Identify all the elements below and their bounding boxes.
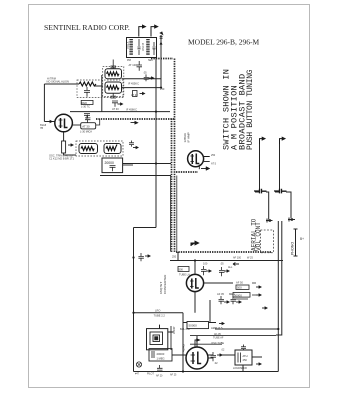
svg-text:L-30 TC: L-30 TC bbox=[81, 106, 90, 109]
svg-text:MEG: MEG bbox=[229, 292, 235, 296]
svg-text:W 25: W 25 bbox=[247, 257, 253, 260]
svg-text:IF 456KC: IF 456KC bbox=[126, 108, 137, 112]
svg-text:20000: 20000 bbox=[105, 161, 115, 165]
svg-text:B+: B+ bbox=[300, 237, 304, 241]
svg-text:AF 20: AF 20 bbox=[156, 375, 163, 378]
svg-text:AMPLIT 5: AMPLIT 5 bbox=[211, 326, 223, 330]
svg-text:RED: RED bbox=[82, 101, 88, 105]
svg-text:SENTINEL RADIO CORP.: SENTINEL RADIO CORP. bbox=[44, 23, 130, 32]
svg-text:.02: .02 bbox=[214, 361, 218, 365]
svg-text:HI TRIM: HI TRIM bbox=[47, 78, 56, 81]
svg-text:7B: 7B bbox=[40, 127, 43, 130]
svg-text:250: 250 bbox=[160, 87, 165, 91]
svg-text:450: 450 bbox=[243, 358, 248, 362]
svg-text:AT 30: AT 30 bbox=[131, 93, 138, 97]
svg-text:IF AMP: IF AMP bbox=[187, 132, 191, 142]
svg-text:AF 100: AF 100 bbox=[233, 257, 242, 260]
svg-text:PILOT: PILOT bbox=[147, 373, 154, 376]
svg-text:C1 K12 M2 B BR 1T1: C1 K12 M2 B BR 1T1 bbox=[49, 157, 74, 161]
svg-text:SEC: SEC bbox=[148, 59, 153, 62]
svg-text:AT 5: AT 5 bbox=[211, 163, 217, 166]
svg-text:PRI: PRI bbox=[127, 59, 131, 62]
svg-text:AF 25: AF 25 bbox=[170, 374, 177, 377]
svg-text:AF 05: AF 05 bbox=[217, 292, 224, 296]
svg-text:.05: .05 bbox=[143, 71, 147, 75]
svg-text:100: 100 bbox=[203, 262, 208, 266]
svg-text:.05: .05 bbox=[220, 262, 224, 266]
svg-text:L-30 MICA: L-30 MICA bbox=[80, 131, 92, 134]
svg-text:AF 50: AF 50 bbox=[236, 281, 243, 285]
svg-text:IF 455KC: IF 455KC bbox=[128, 82, 139, 86]
svg-text:CONVERTER: CONVERTER bbox=[163, 274, 167, 294]
svg-text:250: 250 bbox=[211, 154, 216, 157]
svg-text:OSC B: OSC B bbox=[141, 43, 145, 51]
svg-text:.02: .02 bbox=[221, 349, 225, 352]
svg-text:TUBE LA: TUBE LA bbox=[179, 273, 190, 277]
svg-text:ALL: ALL bbox=[228, 266, 233, 269]
svg-text:LOUDSPKR: LOUDSPKR bbox=[233, 367, 247, 370]
svg-text:20000: 20000 bbox=[157, 352, 165, 356]
svg-text:#47: #47 bbox=[135, 373, 140, 376]
svg-text:50000: 50000 bbox=[234, 293, 242, 297]
svg-text:LOOP: LOOP bbox=[172, 326, 176, 334]
svg-text:MODEL 296-B, 296-M: MODEL 296-B, 296-M bbox=[188, 38, 260, 47]
svg-text:500: 500 bbox=[179, 268, 184, 272]
svg-text:AT 100: AT 100 bbox=[129, 63, 138, 67]
svg-text:OSC TUBE: OSC TUBE bbox=[211, 342, 224, 345]
svg-text:ATH: ATH bbox=[243, 354, 248, 358]
svg-text:4B4G: 4B4G bbox=[182, 343, 186, 352]
svg-text:TUBE 2.2: TUBE 2.2 bbox=[154, 314, 166, 318]
svg-text:500: 500 bbox=[237, 286, 242, 290]
svg-text:VOL CONT: VOL CONT bbox=[255, 222, 262, 251]
svg-text:BAL 250: BAL 250 bbox=[180, 327, 190, 331]
svg-text:PUSH BUTTON TUNING: PUSH BUTTON TUNING bbox=[246, 69, 255, 150]
svg-text:AT 30: AT 30 bbox=[82, 125, 90, 129]
svg-text:AT 30: AT 30 bbox=[112, 107, 119, 111]
svg-text:LRO: LRO bbox=[155, 309, 160, 313]
svg-text:1 MEG: 1 MEG bbox=[157, 357, 165, 361]
svg-text:VOL A: VOL A bbox=[126, 41, 130, 49]
svg-text:TUBE AF: TUBE AF bbox=[213, 336, 224, 339]
svg-text:PHONO: PHONO bbox=[291, 242, 295, 255]
svg-text:250: 250 bbox=[172, 256, 177, 259]
